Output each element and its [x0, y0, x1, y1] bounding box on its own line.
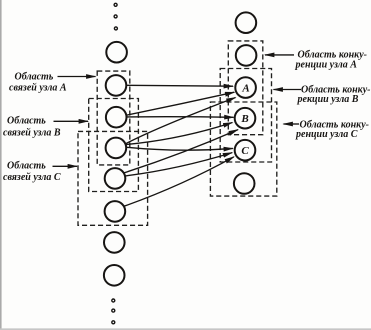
- node R1: [236, 12, 257, 33]
- label: competition area of node C: [295, 120, 369, 141]
- node L6: [105, 201, 126, 222]
- label: connection area of node B: [3, 116, 61, 139]
- pointer arrow to box B: [54, 120, 89, 122]
- node L2: [106, 75, 127, 96]
- wire L4 to node C: [126, 147, 233, 150]
- wire L5 to node C: [125, 153, 232, 176]
- svg-text:A: A: [241, 83, 249, 95]
- page frame left edge: [0, 0, 2, 330]
- label: competition area of node B: [297, 85, 371, 106]
- wire L4 to node A: [126, 98, 236, 144]
- wire L3 to node B: [127, 116, 234, 119]
- svg-text:связей узла В: связей узла В: [3, 128, 61, 139]
- wire L5 to node B: [124, 130, 238, 173]
- top ellipsis dots: [114, 3, 117, 30]
- node L8: [104, 265, 125, 286]
- node R2: [236, 45, 257, 66]
- node L4: [106, 138, 127, 159]
- svg-text:ренции узла С: ренции узла С: [295, 129, 358, 140]
- node A: [235, 77, 256, 98]
- wire L2 to node A: [127, 84, 233, 87]
- bottom ellipsis dots: [112, 299, 115, 324]
- connection-region box B (left, dashed): [89, 99, 139, 192]
- pointer arrow to box A: [58, 76, 96, 78]
- label: connection area of node A: [9, 72, 67, 94]
- node L3: [106, 107, 127, 128]
- competition-region box B (right, dashed): [220, 69, 271, 163]
- wire L4 to node B: [126, 123, 232, 145]
- wire L6 to node C: [124, 157, 234, 207]
- node B: [235, 108, 256, 129]
- pointer arrow to box RA: [265, 54, 294, 56]
- svg-text:С: С: [241, 145, 249, 157]
- svg-text:Область: Область: [7, 116, 46, 127]
- pointer arrow to box RB: [274, 89, 302, 91]
- node L5: [105, 168, 126, 189]
- pointer arrow to box C: [53, 165, 78, 167]
- svg-text:Область: Область: [15, 72, 54, 83]
- svg-text:связей узла А: связей узла А: [9, 83, 67, 94]
- svg-text:Область: Область: [7, 161, 46, 172]
- node L7: [104, 232, 125, 253]
- wire L3 to node A: [127, 92, 235, 115]
- label: competition area of node A: [295, 50, 367, 71]
- node R6: [234, 173, 255, 194]
- page frame bottom edge: [0, 328, 371, 330]
- svg-text:рекции узла В: рекции узла В: [297, 94, 359, 105]
- label: connection area of node C: [3, 161, 61, 184]
- node L1: [106, 42, 127, 63]
- node C: [235, 140, 256, 161]
- connection-region box C (left, dashed): [78, 131, 148, 225]
- competition-region box C (right, dashed): [210, 102, 276, 196]
- competition-region box A (right, dashed): [228, 41, 262, 135]
- svg-text:связей узла С: связей узла С: [3, 172, 61, 183]
- connection-region box A (left, dashed): [97, 71, 130, 165]
- svg-text:В: В: [240, 113, 248, 125]
- pointer arrow to box RC: [284, 123, 300, 125]
- svg-text:ренции узла А: ренции узла А: [295, 60, 358, 71]
